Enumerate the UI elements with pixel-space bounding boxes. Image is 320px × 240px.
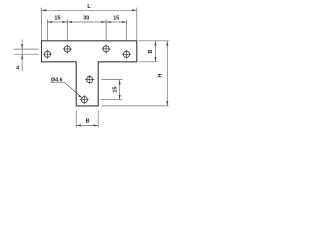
svg-text:15: 15 — [113, 87, 119, 93]
svg-text:B: B — [148, 49, 154, 53]
svg-text:B: B — [86, 119, 90, 125]
svg-text:30: 30 — [83, 15, 89, 21]
svg-text:4: 4 — [16, 66, 19, 72]
svg-text:15: 15 — [54, 15, 60, 21]
svg-text:H: H — [158, 73, 164, 77]
svg-text:Ø4.6: Ø4.6 — [51, 78, 63, 84]
svg-text:15: 15 — [113, 15, 119, 21]
